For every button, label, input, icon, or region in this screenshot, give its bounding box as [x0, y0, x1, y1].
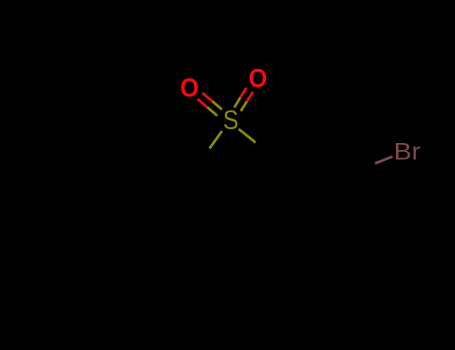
bond C-Br maroon half stub [375, 157, 393, 164]
bond S-C vinyl olive half stub [210, 131, 223, 149]
svg-text:O: O [180, 73, 199, 103]
bond S-C aryl olive half stub [239, 129, 256, 143]
svg-text:S: S [223, 105, 239, 135]
double bond S=O1 line 1 red half (O side) [203, 93, 213, 101]
double bond S=O2 line 2 olive half (S side) [241, 101, 247, 111]
double bond S=O2 line 1 olive half (S side) [234, 98, 240, 108]
svg-text:Br: Br [394, 138, 421, 165]
double bond S=O1 line 1 olive half (S side) [212, 101, 222, 109]
double bond S=O1 line 2 red half (O side) [198, 99, 208, 107]
double bond S=O2 line 1 red half (O side) [240, 88, 246, 98]
double bond S=O1 line 2 olive half (S side) [207, 107, 217, 115]
svg-text:O: O [248, 63, 267, 93]
double bond S=O2 line 2 red half (O side) [247, 92, 253, 102]
